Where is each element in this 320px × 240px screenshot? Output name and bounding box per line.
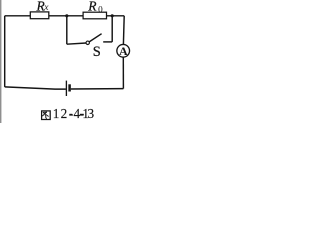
svg-text:0: 0	[98, 4, 103, 14]
svg-text:x: x	[43, 3, 49, 13]
svg-text:R: R	[87, 0, 97, 14]
svg-text:S: S	[93, 44, 101, 60]
svg-text:A: A	[119, 44, 128, 58]
svg-text:12-4-13: 12-4-13	[53, 106, 95, 121]
